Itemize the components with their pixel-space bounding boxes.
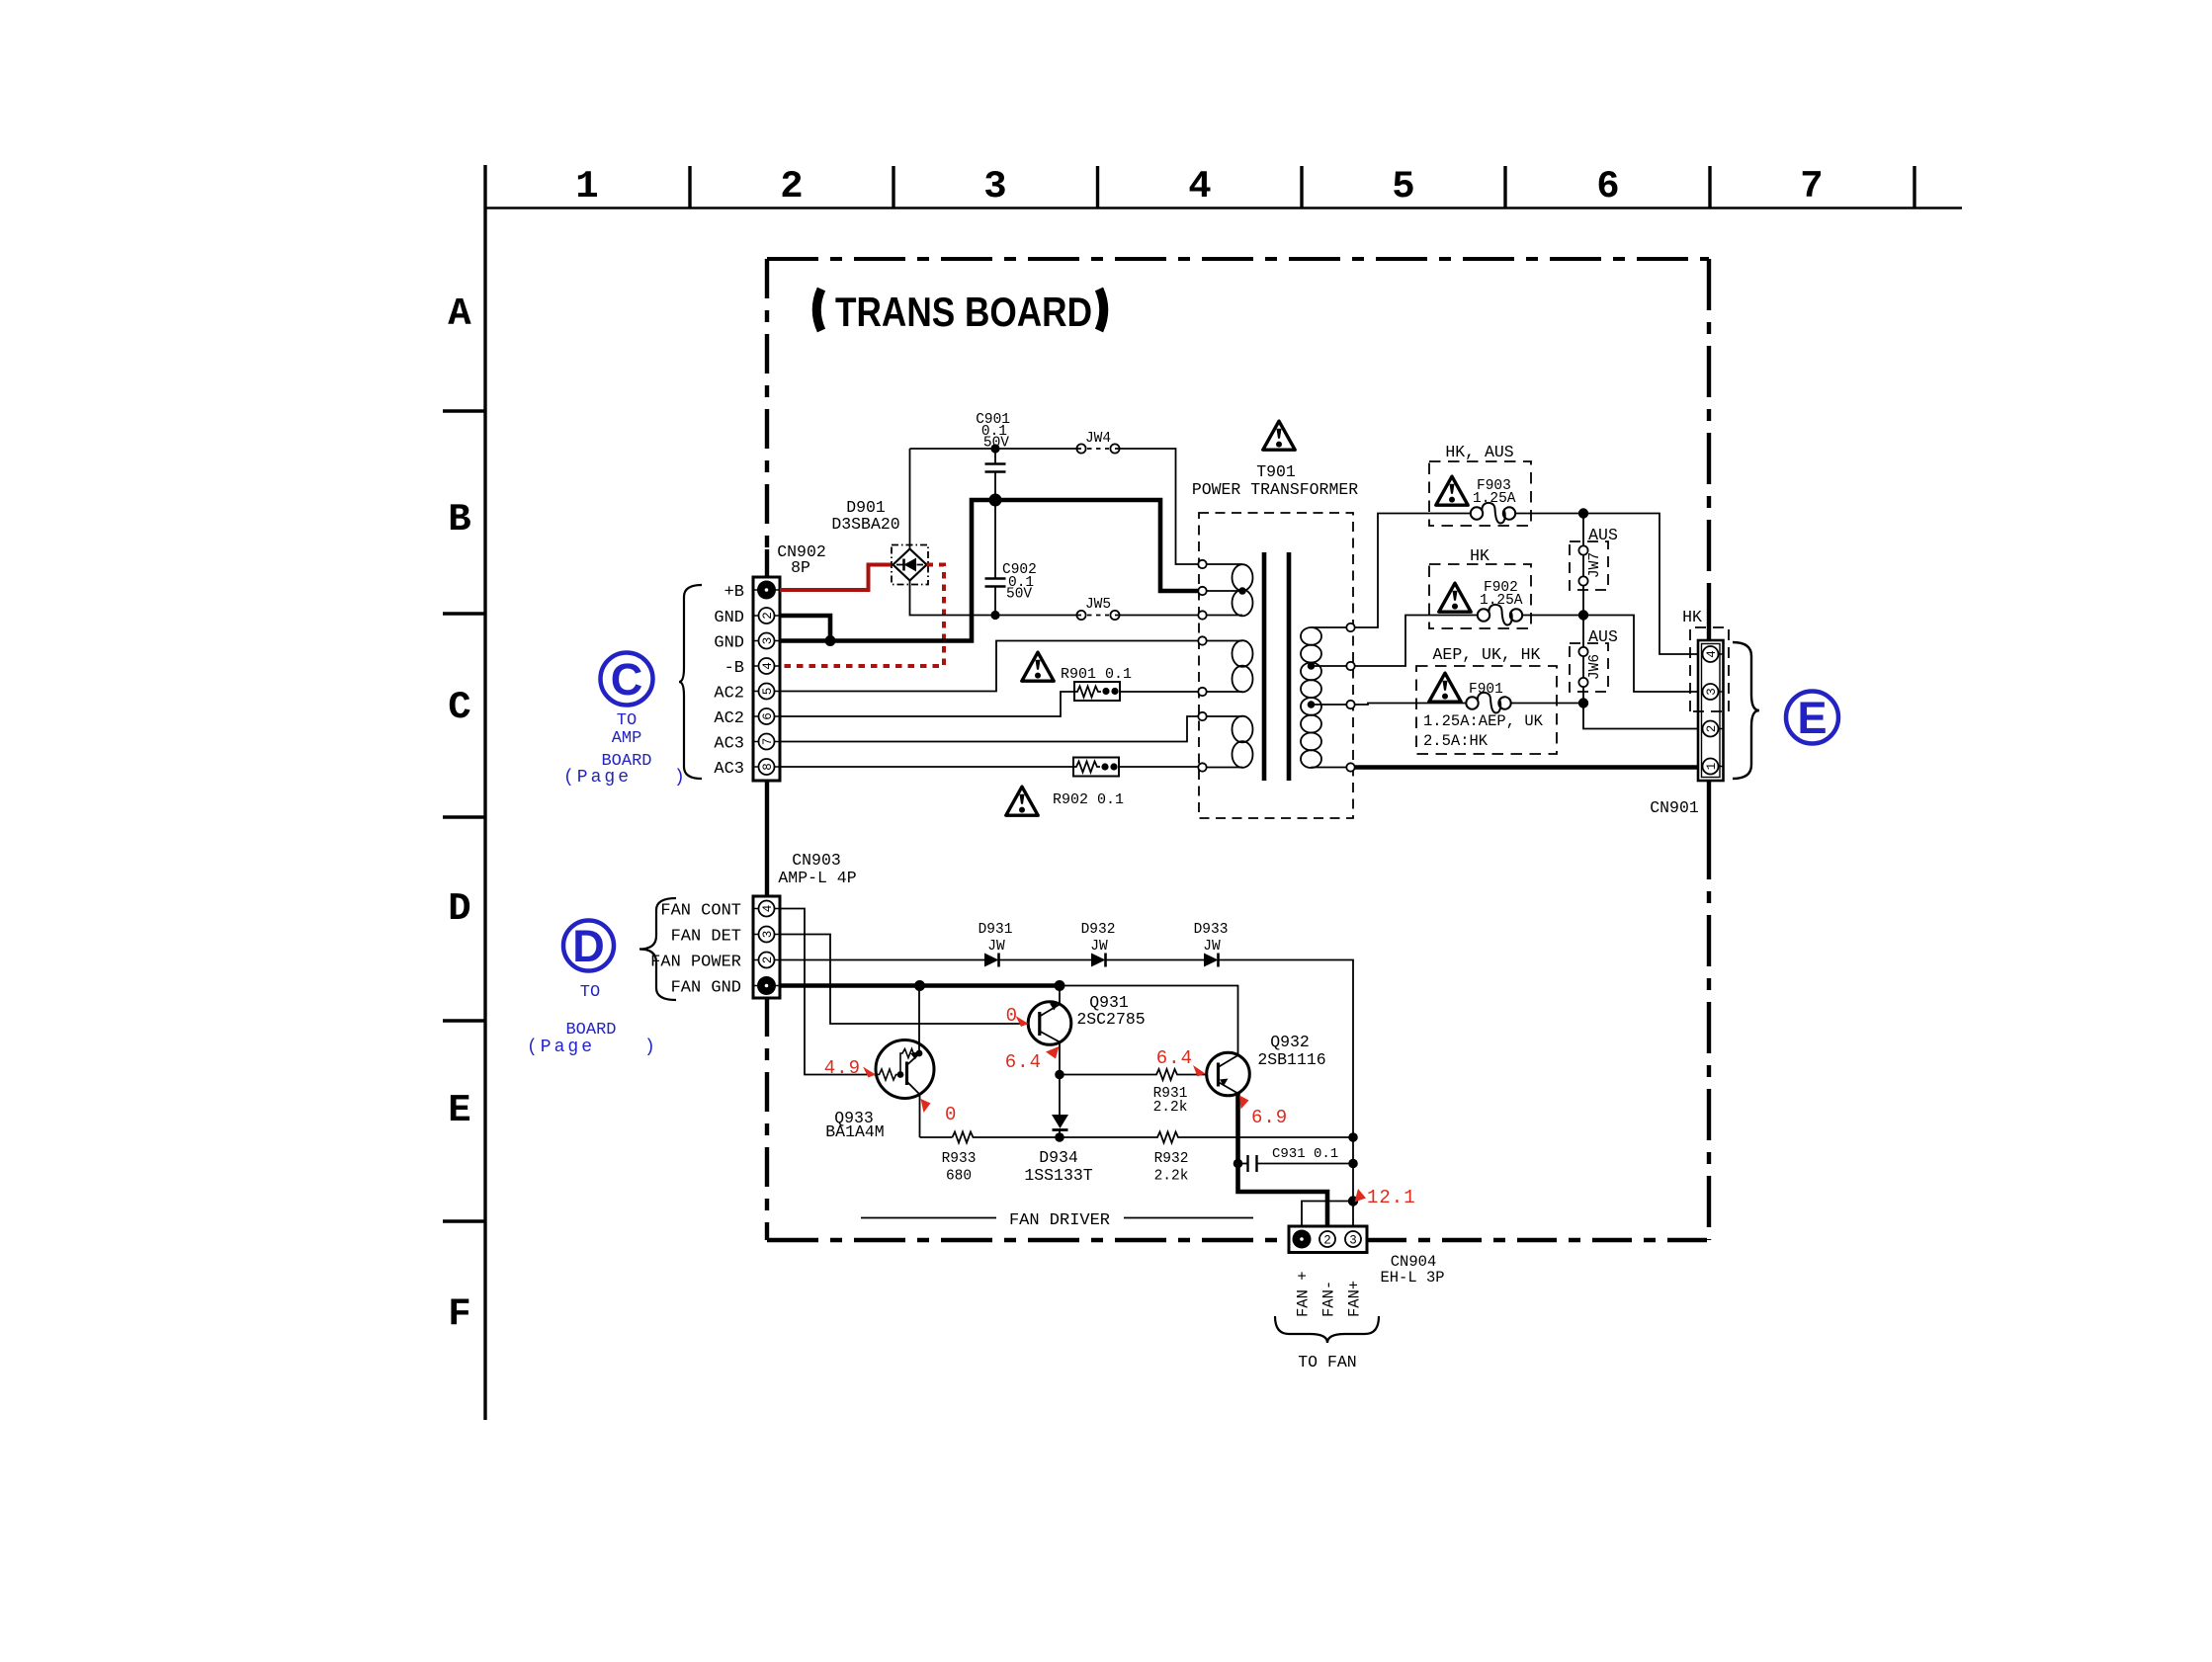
svg-text:HK, AUS: HK, AUS xyxy=(1445,443,1513,461)
CN902 pin 6 xyxy=(759,708,776,724)
CN903 pin labels xyxy=(650,902,741,998)
svg-text:2: 2 xyxy=(1705,725,1719,733)
svg-text:R933: R933 xyxy=(942,1151,977,1167)
svg-text:JW: JW xyxy=(1090,939,1108,955)
wire AC2 pin6 xyxy=(780,692,1074,716)
warning symbol F903 xyxy=(1436,476,1468,505)
fuse F902 1.25A xyxy=(1429,546,1531,628)
CN902 pin 7 xyxy=(759,734,776,750)
svg-text:680: 680 xyxy=(946,1169,972,1185)
T901 primary pin 6 xyxy=(1198,712,1206,720)
voltage 6.4 Q931 collector xyxy=(1005,1046,1060,1073)
wire secondary 2 to F902 xyxy=(1355,616,1478,667)
svg-text:JW: JW xyxy=(987,939,1005,955)
svg-text:C931 0.1: C931 0.1 xyxy=(1272,1146,1338,1162)
wire Q931 emitter up to GND xyxy=(1059,986,1061,1005)
jumper JW7 xyxy=(1570,514,1618,616)
svg-text:D: D xyxy=(448,887,470,931)
wire -B red dashed xyxy=(780,565,944,667)
node D destination text xyxy=(565,983,616,1039)
CN901 pin 4 xyxy=(1703,646,1720,662)
svg-text:A: A xyxy=(448,292,471,336)
svg-text:AC2: AC2 xyxy=(714,709,744,728)
junction GND pins 2-3 xyxy=(825,635,836,646)
connector CN901 xyxy=(1650,640,1723,817)
diode D932 JW xyxy=(1081,922,1116,967)
svg-text:50V: 50V xyxy=(1006,587,1032,603)
brace CN903 pins xyxy=(639,898,676,1000)
connector CN902 8P xyxy=(753,542,826,781)
svg-text:AC3: AC3 xyxy=(714,735,744,754)
svg-text:R902 0.1: R902 0.1 xyxy=(1053,791,1124,808)
svg-text:4.9: 4.9 xyxy=(824,1057,861,1079)
CN901 pin stubs xyxy=(1719,654,1724,767)
svg-text:T901: T901 xyxy=(1256,462,1296,481)
svg-text:2SC2785: 2SC2785 xyxy=(1076,1010,1145,1029)
svg-text:): ) xyxy=(644,1038,655,1057)
resistor R933 680 xyxy=(942,1132,1060,1185)
wire F901 to junction xyxy=(1512,703,1584,705)
wire secondary 4 to CN901 pin1 thick xyxy=(1355,765,1703,770)
bridge rectifier D901 xyxy=(831,498,928,585)
resistor R932 2.2k xyxy=(1060,1132,1353,1185)
junction Q933 collector on GND bus xyxy=(914,980,925,991)
junction Q931 collector node xyxy=(1055,1070,1064,1080)
wire GND pin2 thick xyxy=(780,616,830,641)
voltage 4.9 Q933 base xyxy=(824,1057,876,1079)
voltage 12.1 FAN+ node xyxy=(1355,1187,1416,1208)
CN903 pin stubs xyxy=(753,909,780,986)
CN902 pin labels xyxy=(714,583,744,779)
wire FAN GND thin continuation to Q932 xyxy=(1060,986,1238,1054)
CN902 pin 2 xyxy=(759,608,776,623)
wire F903 to CN901 pin4 xyxy=(1516,514,1702,655)
CN903 pin 1 xyxy=(757,976,776,995)
jumper JW6 xyxy=(1570,616,1618,704)
svg-text:1: 1 xyxy=(575,165,598,208)
voltage 0 Q931 base xyxy=(1006,1005,1029,1027)
svg-text:R901 0.1: R901 0.1 xyxy=(1061,666,1132,683)
svg-text:3: 3 xyxy=(983,165,1006,208)
svg-text:50V: 50V xyxy=(983,436,1009,452)
wire AC3 pin8 xyxy=(780,766,1073,768)
warning symbol F901 xyxy=(1429,673,1461,702)
svg-text:FAN +: FAN + xyxy=(1295,1271,1313,1317)
fuse F901 xyxy=(1416,645,1557,754)
T901 primary winding 3 xyxy=(1207,716,1253,768)
svg-text:TO: TO xyxy=(617,711,637,730)
svg-text:4: 4 xyxy=(761,662,775,670)
svg-text:FAN+: FAN+ xyxy=(1346,1281,1364,1317)
svg-text:Q932: Q932 xyxy=(1270,1033,1310,1051)
T901 primary winding 1 xyxy=(1207,564,1253,616)
svg-text:4: 4 xyxy=(1705,650,1719,658)
title TRANS BOARD xyxy=(816,290,821,331)
junction D934 cathode xyxy=(1055,1132,1064,1142)
junction T901 secondary tap 1 xyxy=(1308,662,1316,670)
junction C901 bottom on GND bus xyxy=(989,494,1002,507)
svg-text:3: 3 xyxy=(761,931,775,939)
TRANS BOARD border right xyxy=(1707,259,1711,591)
wire top rail to JW4 and transformer xyxy=(910,449,1199,564)
T901 secondary pin 3 xyxy=(1346,701,1354,708)
svg-text:FAN DET: FAN DET xyxy=(671,928,741,947)
grid left border xyxy=(443,165,485,1420)
jumper JW4 xyxy=(1076,431,1119,454)
grid ruler top xyxy=(484,166,1962,208)
diode D933 JW xyxy=(1194,922,1229,967)
wire Q933 emitter up to GND xyxy=(918,986,920,1054)
fuse F903 1.25A xyxy=(1429,443,1531,526)
voltage 6.9 Q932 collector xyxy=(1239,1096,1288,1129)
diode D931 JW xyxy=(978,922,1013,967)
svg-text:EH-L 3P: EH-L 3P xyxy=(1380,1269,1444,1287)
wire CN904 pin1 to FAN+ node xyxy=(1302,1202,1353,1230)
junction FAN+ node 12.1 xyxy=(1348,1196,1358,1205)
svg-text:C: C xyxy=(448,686,470,729)
voltage 6.4 Q932 base xyxy=(1156,1047,1206,1077)
T901 primary pin 2 xyxy=(1198,587,1206,595)
junction F901 JW6 xyxy=(1578,698,1588,707)
svg-text:FAN DRIVER: FAN DRIVER xyxy=(1009,1211,1110,1230)
T901 primary pin 7 xyxy=(1198,763,1206,771)
svg-text:3: 3 xyxy=(1349,1234,1357,1248)
svg-text:GND: GND xyxy=(714,634,744,653)
svg-text:HK: HK xyxy=(1470,546,1489,565)
capacitor C902 xyxy=(985,500,1037,620)
svg-text:7: 7 xyxy=(1800,165,1823,208)
svg-text:12.1: 12.1 xyxy=(1367,1187,1416,1208)
transformer T901 outline xyxy=(1192,462,1358,818)
svg-text:FAN POWER: FAN POWER xyxy=(650,954,741,972)
T901 secondary winding xyxy=(1301,627,1347,768)
svg-text:AC2: AC2 xyxy=(714,685,744,704)
junction T901 primary tap 1 xyxy=(1238,587,1246,595)
CN903 pin 4 xyxy=(759,901,776,917)
svg-text:AEP, UK, HK: AEP, UK, HK xyxy=(1433,645,1541,664)
T901 secondary pin 2 xyxy=(1346,662,1354,670)
T901 primary pin 5 xyxy=(1198,688,1206,696)
warning symbol R902 xyxy=(1006,787,1038,815)
svg-text:4: 4 xyxy=(1188,165,1211,208)
svg-text:JW: JW xyxy=(1203,939,1221,955)
junction F903 JW7 xyxy=(1578,508,1588,518)
svg-text:): ) xyxy=(674,768,685,788)
svg-text:CN903: CN903 xyxy=(792,851,841,870)
HK dashed box CN901 xyxy=(1682,608,1729,711)
CN904 pin labels vertical xyxy=(1295,1271,1364,1317)
svg-text:5: 5 xyxy=(761,688,775,696)
node D circle xyxy=(563,921,614,972)
CN901 pin 2 xyxy=(1703,721,1720,737)
svg-text:0: 0 xyxy=(945,1104,956,1125)
warning symbol R901 xyxy=(1022,652,1054,681)
svg-text:6: 6 xyxy=(1596,165,1619,208)
resistor R901 0.1 fusible xyxy=(1061,666,1199,701)
CN903 pin 2 xyxy=(759,953,776,968)
svg-text:R932: R932 xyxy=(1154,1151,1189,1167)
connector CN904 EH-L 3P xyxy=(1289,1226,1445,1287)
svg-text:BA1A4M: BA1A4M xyxy=(825,1122,884,1141)
svg-text:D931: D931 xyxy=(978,922,1013,938)
svg-text:7: 7 xyxy=(761,738,775,746)
svg-text:D: D xyxy=(572,921,605,971)
svg-text:(Page: (Page xyxy=(527,1038,595,1057)
svg-text:+B: +B xyxy=(724,583,744,602)
svg-text:JW7: JW7 xyxy=(1587,552,1603,578)
svg-text:E: E xyxy=(1797,693,1827,743)
svg-text:2SB1116: 2SB1116 xyxy=(1257,1050,1325,1069)
svg-text:2: 2 xyxy=(1323,1234,1331,1248)
transistor Q931 2SC2785 xyxy=(1028,993,1145,1044)
wire secondary 1 to F903 xyxy=(1355,514,1471,628)
grid row letters xyxy=(448,292,471,1336)
CN904 pin 2 xyxy=(1319,1231,1335,1248)
svg-text:2.2k: 2.2k xyxy=(1154,1169,1189,1185)
svg-text:1SS133T: 1SS133T xyxy=(1024,1166,1092,1185)
svg-text:CN901: CN901 xyxy=(1650,798,1699,817)
wire AC2 pin5 xyxy=(780,641,1199,692)
svg-text:TO FAN: TO FAN xyxy=(1298,1353,1356,1371)
wire F902 to CN901 pin3 xyxy=(1523,616,1702,693)
svg-text:6.9: 6.9 xyxy=(1251,1107,1288,1128)
T901 primary pin 4 xyxy=(1198,636,1206,644)
svg-text:B: B xyxy=(448,498,470,541)
svg-text:2: 2 xyxy=(761,956,775,964)
junction R932 right xyxy=(1348,1132,1358,1142)
transistor Q933 BA1A4M xyxy=(825,1040,934,1142)
svg-text:-B: -B xyxy=(724,659,744,678)
svg-text:8P: 8P xyxy=(791,558,810,577)
svg-text:2: 2 xyxy=(780,165,803,208)
svg-text:FAN CONT: FAN CONT xyxy=(660,902,741,921)
warning symbol F902 xyxy=(1439,583,1471,612)
svg-text:AC3: AC3 xyxy=(714,760,744,779)
node C circle xyxy=(601,653,653,706)
wire AC3 pin7 xyxy=(780,716,1199,742)
TRANS BOARD border bottom xyxy=(767,1238,1289,1242)
diode D934 1SS133T xyxy=(1024,1115,1092,1185)
CN902 pin 5 xyxy=(759,684,776,700)
wire D901 bottom to JW5 rail xyxy=(910,581,1199,616)
wire FAN POWER xyxy=(780,960,1353,1230)
grid column numbers xyxy=(575,165,1823,208)
T901 primary winding 2 xyxy=(1207,640,1253,692)
svg-text:D934: D934 xyxy=(1039,1148,1078,1167)
wire FAN DET xyxy=(780,935,1029,1025)
svg-text:AMP-L 4P: AMP-L 4P xyxy=(778,869,856,887)
svg-text:(Page: (Page xyxy=(563,768,632,788)
T901 primary pin 1 xyxy=(1198,560,1206,568)
svg-text:1: 1 xyxy=(1705,763,1719,771)
CN901 pin 3 xyxy=(1703,684,1720,700)
svg-text:F: F xyxy=(448,1292,470,1336)
wire Q931 collector down xyxy=(1059,1042,1061,1118)
wire Q932 collector thick to CN904 xyxy=(1238,1094,1328,1231)
resistor R902 0.1 fusible xyxy=(1053,758,1199,809)
CN903 pin 3 xyxy=(759,927,776,943)
svg-text:GND: GND xyxy=(714,609,744,627)
svg-text:D933: D933 xyxy=(1194,922,1229,938)
svg-text:FAN-: FAN- xyxy=(1320,1281,1338,1317)
CN902 pin stubs xyxy=(753,590,780,767)
svg-text:TRANS BOARD: TRANS BOARD xyxy=(835,289,1092,335)
CN904 pin 1 xyxy=(1293,1230,1312,1249)
svg-text:3: 3 xyxy=(761,637,775,645)
warning symbol T901 xyxy=(1263,421,1295,450)
svg-text:6.4: 6.4 xyxy=(1156,1047,1193,1069)
wire +B red xyxy=(780,565,891,591)
T901 secondary pin 1 xyxy=(1346,623,1354,631)
wire bottom rail with R933 R932 xyxy=(920,1136,953,1138)
svg-text:AMP: AMP xyxy=(612,729,642,748)
capacitor C901 xyxy=(976,412,1010,500)
jumper JW5 xyxy=(1076,597,1119,620)
svg-text:JW6: JW6 xyxy=(1587,654,1603,680)
junction Q931 emitter on GND bus xyxy=(1055,980,1065,991)
svg-text:8: 8 xyxy=(761,763,775,771)
svg-text:3: 3 xyxy=(1705,688,1719,696)
CN902 pin 3 xyxy=(759,633,776,649)
brace CN901 pins xyxy=(1733,642,1759,779)
node E circle xyxy=(1786,692,1838,744)
svg-text:D932: D932 xyxy=(1081,922,1116,938)
CN902 pin 4 xyxy=(759,658,776,674)
label FAN DRIVER xyxy=(861,1211,1253,1230)
junction F902 JW6 JW7 xyxy=(1578,610,1588,620)
svg-text:FAN GND: FAN GND xyxy=(671,979,741,998)
svg-text:2: 2 xyxy=(761,612,775,620)
wire junction to CN901 pin2 xyxy=(1583,704,1702,729)
svg-text:0: 0 xyxy=(1006,1005,1017,1027)
svg-text:POWER TRANSFORMER: POWER TRANSFORMER xyxy=(1192,480,1358,499)
resistor R931 2.2k xyxy=(1060,1069,1207,1116)
svg-text:JW5: JW5 xyxy=(1085,597,1111,613)
T901 primary pin 3 xyxy=(1198,611,1206,619)
svg-text:HK: HK xyxy=(1682,608,1702,626)
T901 secondary pin 4 xyxy=(1346,763,1354,771)
svg-text:6: 6 xyxy=(761,712,775,720)
junction T901 secondary tap 2 xyxy=(1308,701,1316,708)
svg-text:JW4: JW4 xyxy=(1085,431,1111,447)
svg-text:D3SBA20: D3SBA20 xyxy=(831,515,899,534)
transistor Q932 2SB1116 xyxy=(1207,1033,1326,1096)
CN902 pin 8 xyxy=(759,759,776,775)
svg-text:TO: TO xyxy=(580,983,600,1002)
CN902 pin 1 xyxy=(757,581,776,600)
wire FAN GND thick bus xyxy=(780,983,1060,988)
svg-text:6.4: 6.4 xyxy=(1005,1051,1042,1073)
svg-text:F901: F901 xyxy=(1469,682,1503,698)
capacitor C931 0.1 xyxy=(1234,1146,1353,1172)
connector CN903 AMP-L 4P xyxy=(753,851,857,998)
wire D901 top to rail xyxy=(909,449,911,549)
CN904 pin 3 xyxy=(1345,1231,1361,1248)
svg-text:2.2k: 2.2k xyxy=(1153,1100,1188,1116)
svg-text:5: 5 xyxy=(1392,165,1414,208)
junction C931 right xyxy=(1348,1159,1358,1169)
CN901 pin 1 xyxy=(1703,759,1720,775)
wire secondary 3 to F901 xyxy=(1355,704,1466,706)
node C destination text xyxy=(601,711,651,771)
TRANS BOARD dash-dot border top xyxy=(767,257,1709,261)
svg-text:E: E xyxy=(448,1089,470,1132)
voltage 0 Q933 emitter xyxy=(921,1099,957,1125)
brace TO FAN xyxy=(1275,1316,1379,1343)
wire FAN CONT xyxy=(780,909,876,1075)
brace for CN902 pins xyxy=(679,585,702,779)
TRANS BOARD border left xyxy=(765,259,769,549)
svg-text:1.25A:AEP, UK: 1.25A:AEP, UK xyxy=(1423,712,1544,730)
wire Q933 collector down xyxy=(919,1095,921,1138)
svg-text:4: 4 xyxy=(761,905,775,913)
svg-text:C: C xyxy=(611,654,643,705)
wire GND bus thick to transformer xyxy=(780,500,1199,641)
svg-text:2.5A:HK: 2.5A:HK xyxy=(1423,732,1489,750)
